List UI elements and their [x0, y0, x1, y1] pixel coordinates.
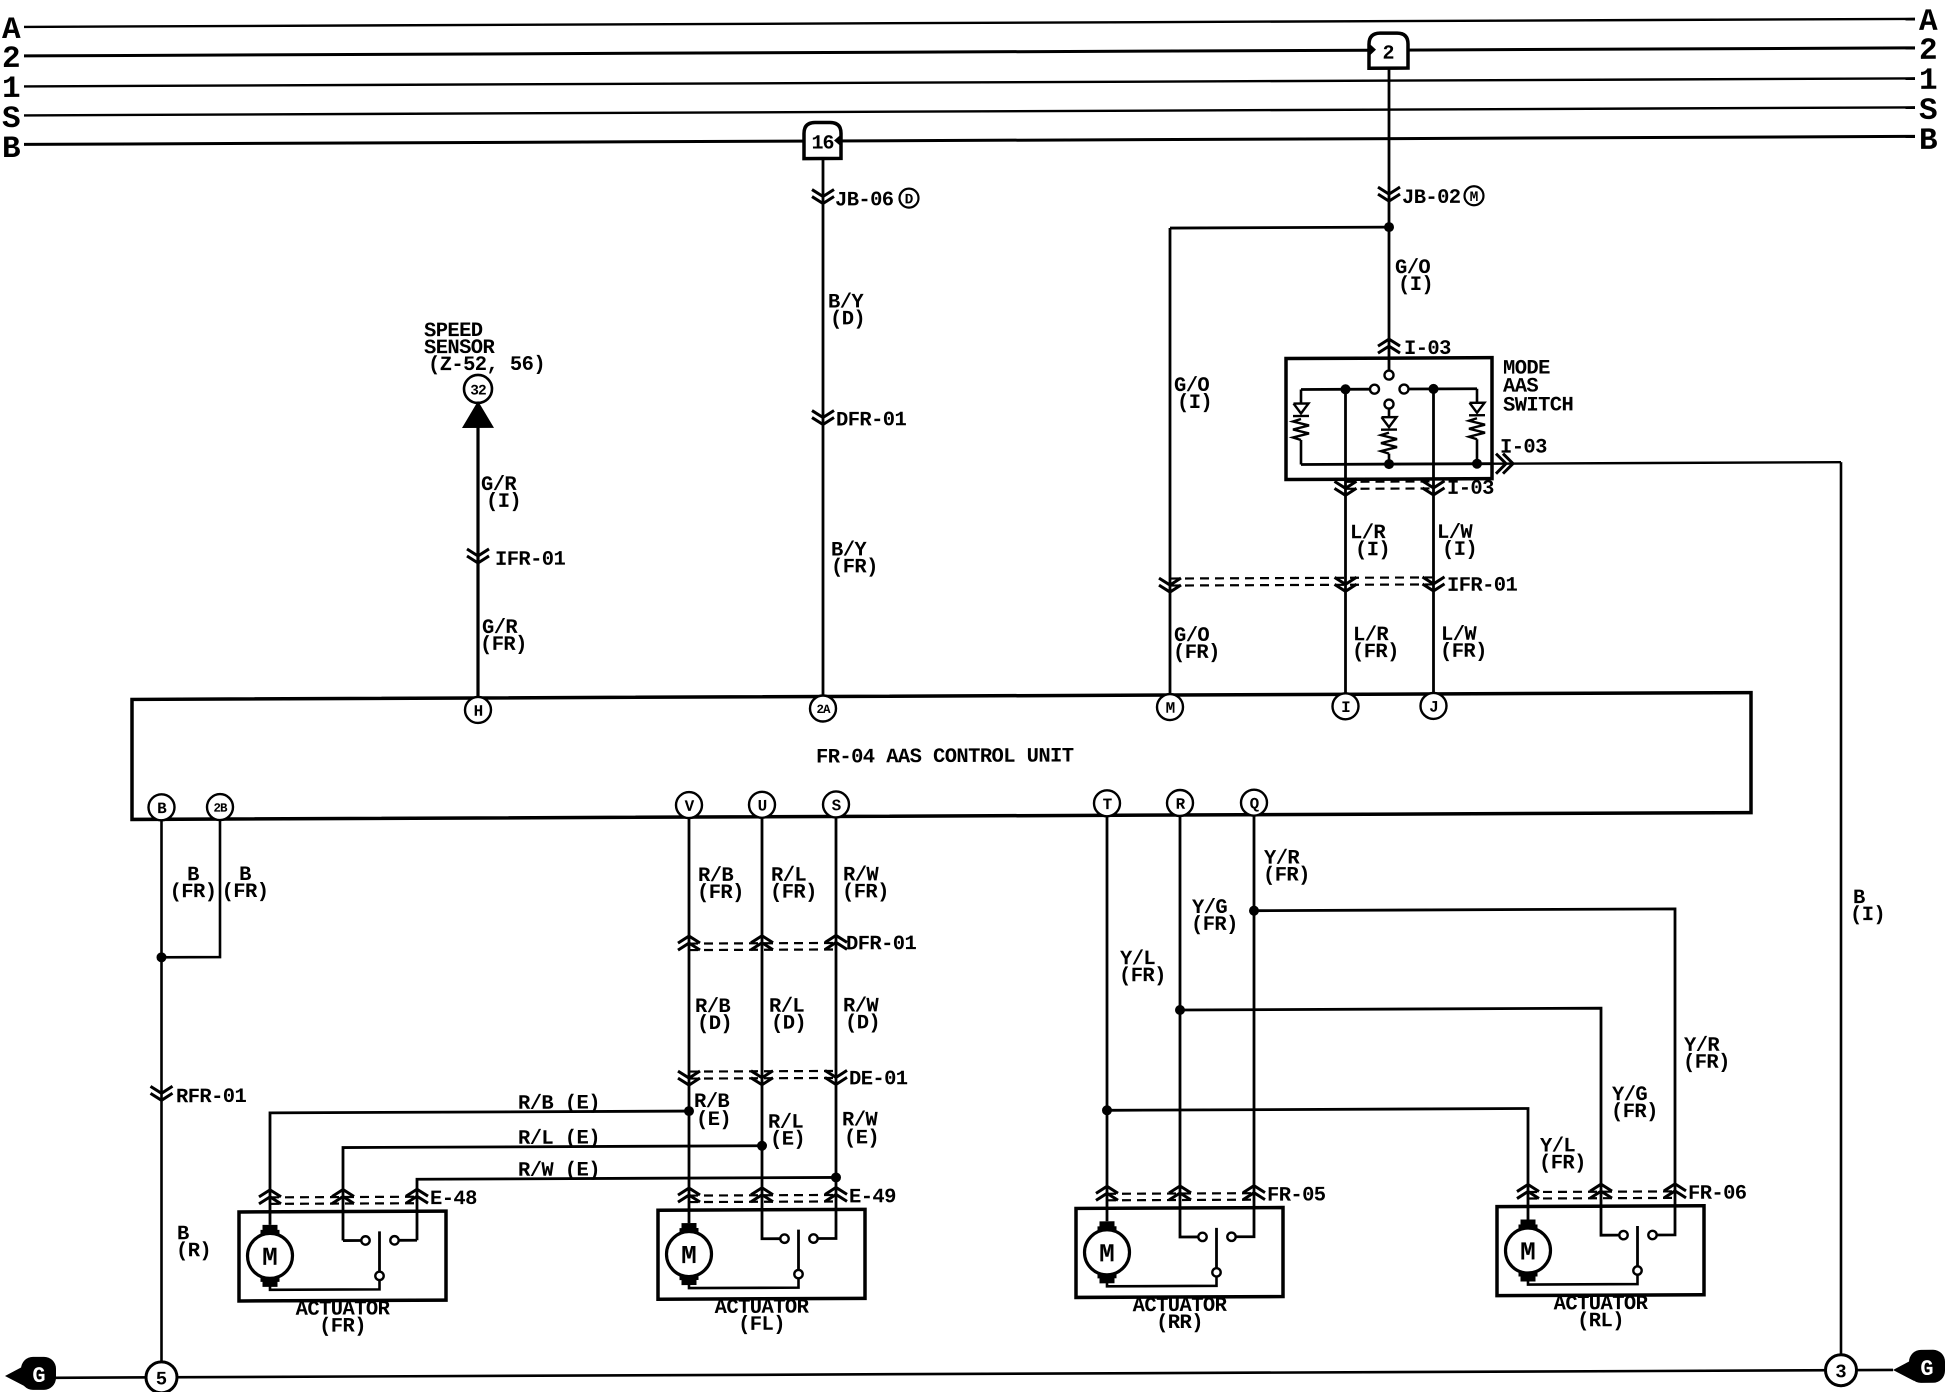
svg-text:I-03: I-03 — [1500, 436, 1547, 459]
svg-text:B: B — [2, 132, 21, 167]
actuator FL box — [658, 1209, 865, 1299]
svg-text:(FR): (FR) — [1611, 1101, 1658, 1124]
svg-text:R: R — [1176, 796, 1186, 814]
wire L/R from switch to terminal I — [1344, 389, 1347, 694]
connector I-03 chevron above mode switch — [1378, 339, 1400, 346]
terminal B — [149, 794, 175, 820]
wire B from terminal B to circle 5 — [160, 819, 163, 1362]
connector DFR-01 chevron on 2A wire — [812, 410, 834, 417]
wire R/B (E) from actuator FR to V wire — [270, 1111, 689, 1225]
wire from connector 16 down to terminal 2A — [822, 159, 825, 697]
motor M of actuator RR — [1085, 1230, 1130, 1275]
svg-text:J: J — [1429, 699, 1438, 717]
wire T from control unit to actuator RR motor — [1106, 815, 1109, 1221]
svg-text:JB-02: JB-02 — [1402, 187, 1461, 210]
junction on G/O wire — [1384, 222, 1394, 232]
switch lever in actuator RR — [1215, 1228, 1218, 1269]
switch pole contact right — [1400, 385, 1409, 394]
actuator RR box — [1076, 1208, 1283, 1298]
svg-text:(E): (E) — [696, 1109, 731, 1132]
switch bottom bar wire — [1301, 462, 1492, 466]
svg-text:(I): (I) — [486, 491, 521, 514]
svg-text:(E): (E) — [844, 1127, 879, 1150]
svg-text:JB-06: JB-06 — [835, 189, 894, 212]
svg-text:B: B — [157, 800, 167, 818]
wire R/W (E) from actuator FR to S wire — [417, 1177, 836, 1240]
svg-text:DFR-01: DFR-01 — [846, 933, 917, 956]
motor M of actuator FR — [248, 1233, 293, 1278]
connector E-49 chevron row to actuator FL — [689, 1194, 836, 1197]
terminal V — [676, 792, 702, 818]
connector I-03 chevron row below switch — [1346, 480, 1434, 483]
svg-text:(I): (I) — [1850, 904, 1885, 927]
svg-text:5: 5 — [156, 1368, 167, 1390]
terminal U — [749, 792, 775, 818]
terminal H — [465, 697, 491, 723]
svg-text:(I): (I) — [1398, 274, 1433, 297]
speed sensor terminal circle 32 — [464, 375, 492, 403]
connector RFR-01 chevron — [151, 1086, 173, 1093]
svg-text:FR-06: FR-06 — [1688, 1183, 1747, 1206]
wire from connector 2 down to mode AAS switch — [1388, 68, 1391, 371]
wire from switch lever to motor in actuator RL — [1528, 1275, 1638, 1285]
connector FR-06 chevron row to actuator RL — [1528, 1190, 1675, 1193]
svg-text:2: 2 — [1382, 43, 1394, 66]
switch lever in actuator RL — [1636, 1226, 1639, 1267]
svg-text:DFR-01: DFR-01 — [836, 409, 907, 432]
svg-text:T: T — [1103, 796, 1113, 814]
svg-text:(FR): (FR) — [831, 556, 878, 579]
wire L/W from switch to terminal J — [1432, 389, 1435, 694]
svg-text:2B: 2B — [213, 802, 228, 816]
junction centre bottom bar — [1384, 459, 1394, 469]
svg-text:FR-05: FR-05 — [1267, 1184, 1326, 1207]
terminal 2B — [207, 794, 233, 820]
svg-text:(FR): (FR) — [1173, 642, 1220, 665]
svg-text:(D): (D) — [845, 1012, 880, 1035]
connector IFR-01 chevron on H wire — [467, 549, 489, 556]
FR-04 AAS control unit box — [132, 693, 1751, 820]
connector FR-05 chevron row to actuator RR — [1107, 1192, 1254, 1195]
svg-text:32: 32 — [470, 383, 486, 399]
wire I-03 output to right edge — [1492, 462, 1841, 463]
junction Y/G on R wire — [1175, 1005, 1185, 1015]
switch contacts in actuator FL — [780, 1234, 788, 1242]
switch centre contact lower — [1385, 400, 1394, 409]
svg-text:(FR): (FR) — [1352, 641, 1399, 664]
svg-text:(FL): (FL) — [738, 1314, 785, 1337]
junction right bottom bar — [1472, 459, 1482, 469]
connector JB-02 chevron — [1378, 187, 1400, 194]
svg-text:DE-01: DE-01 — [849, 1068, 908, 1091]
svg-text:(FR): (FR) — [1191, 914, 1238, 937]
wire S from control unit into actuator FL — [818, 816, 837, 1238]
wire R from control unit into actuator RR — [1180, 815, 1199, 1237]
switch contacts in actuator RR — [1198, 1233, 1206, 1241]
junction B and 2B wires — [157, 952, 167, 962]
svg-text:U: U — [758, 798, 767, 816]
wire bus 2 — [24, 48, 1915, 56]
svg-text:(E): (E) — [770, 1129, 805, 1152]
wire R/L (E) from actuator FR to U wire — [343, 1146, 762, 1241]
wire bus A — [24, 19, 1915, 27]
svg-text:(I): (I) — [1177, 392, 1212, 415]
connector I-03 chevron pointing right — [1496, 454, 1506, 474]
svg-text:V: V — [685, 798, 695, 816]
wire bus S — [24, 107, 1915, 115]
switch contacts in actuator FR — [361, 1236, 369, 1244]
actuator FR box — [239, 1211, 446, 1301]
svg-text:(FR): (FR) — [1440, 641, 1487, 664]
svg-text:(Z-52, 56): (Z-52, 56) — [428, 354, 545, 377]
connector DE-01 chevron row — [689, 1070, 836, 1073]
svg-text:(FR): (FR) — [697, 882, 744, 905]
svg-text:E-49: E-49 — [849, 1186, 896, 1209]
svg-text:(FR): (FR) — [170, 881, 217, 904]
svg-text:H: H — [474, 703, 483, 721]
speed sensor arrow — [462, 401, 494, 428]
actuator RL box — [1497, 1206, 1704, 1296]
diode and resistor centre in mode switch — [1388, 409, 1391, 418]
wire branch to G/O column — [1170, 226, 1389, 230]
wire G/O down to terminal M — [1169, 228, 1172, 695]
svg-text:M: M — [1166, 700, 1175, 718]
svg-text:R/W (E): R/W (E) — [518, 1159, 600, 1182]
svg-text:3: 3 — [1835, 1361, 1846, 1383]
ground symbol G right — [1893, 1359, 1914, 1381]
switch lever in actuator FL — [797, 1230, 800, 1271]
svg-text:G: G — [1920, 1357, 1933, 1382]
wire from switch lever to motor in actuator FL — [689, 1278, 799, 1288]
wire G/R from speed sensor to terminal H — [476, 426, 479, 698]
svg-text:(I): (I) — [1442, 539, 1477, 562]
svg-text:G: G — [32, 1364, 45, 1389]
terminal J — [1421, 693, 1447, 719]
svg-text:(I): (I) — [1355, 539, 1390, 562]
junction L/R on switch bar — [1341, 384, 1351, 394]
svg-text:M: M — [262, 1243, 278, 1273]
ground symbol G left — [5, 1365, 26, 1387]
svg-text:SWITCH: SWITCH — [1503, 394, 1573, 417]
svg-text:(D): (D) — [771, 1013, 806, 1036]
diode and resistor left in mode switch — [1300, 389, 1303, 403]
switch pole contact left — [1370, 385, 1379, 394]
junction L/W on switch bar — [1429, 384, 1439, 394]
terminal T — [1094, 790, 1120, 816]
terminal Q — [1241, 790, 1267, 816]
svg-text:S: S — [832, 797, 842, 815]
junction R/W (E) on S wire — [831, 1172, 841, 1182]
svg-text:(FR): (FR) — [1683, 1052, 1730, 1075]
ground terminal circle 3 — [1826, 1355, 1857, 1386]
terminal R — [1167, 790, 1193, 816]
junction Y/R on Q wire — [1249, 906, 1259, 916]
svg-text:2A: 2A — [816, 703, 831, 717]
svg-text:16: 16 — [811, 132, 833, 155]
wire from switch lever to motor in actuator FR — [270, 1280, 380, 1290]
motor M of actuator FL — [667, 1231, 712, 1276]
svg-text:(D): (D) — [697, 1013, 732, 1036]
svg-text:M: M — [1520, 1237, 1536, 1267]
wire from switch lever to motor in actuator RR — [1107, 1276, 1217, 1286]
svg-text:R/L (E): R/L (E) — [518, 1127, 600, 1150]
svg-text:M: M — [681, 1241, 697, 1271]
connector box 16 on bus B — [804, 122, 841, 158]
wire Y/G to actuator RL — [1180, 1008, 1620, 1237]
ground terminal circle 5 — [146, 1362, 177, 1392]
svg-text:(FR): (FR) — [842, 881, 889, 904]
svg-text:(D): (D) — [830, 308, 865, 331]
svg-text:E-48: E-48 — [430, 1188, 477, 1211]
mode AAS switch box — [1286, 358, 1492, 480]
connector E-48 chevron row to actuator FR — [270, 1196, 417, 1199]
svg-text:FR-04 AAS CONTROL UNIT: FR-04 AAS CONTROL UNIT — [816, 745, 1074, 769]
svg-text:IFR-01: IFR-01 — [495, 549, 566, 572]
terminal 2A — [810, 695, 836, 721]
switch bar right segment — [1409, 387, 1478, 390]
motor M of actuator RL — [1506, 1228, 1551, 1273]
wire Y/R to actuator RL — [1254, 909, 1675, 1237]
terminal I — [1333, 693, 1359, 719]
svg-text:M: M — [1099, 1239, 1115, 1269]
svg-text:M: M — [1470, 190, 1479, 206]
wire ground rail bottom — [55, 1370, 1893, 1378]
svg-text:(FR): (FR) — [1539, 1152, 1586, 1175]
svg-text:Q: Q — [1250, 795, 1260, 813]
wire bus 1 — [24, 78, 1915, 86]
svg-text:D: D — [905, 192, 914, 208]
svg-text:I-03: I-03 — [1447, 478, 1494, 501]
diode and resistor right in mode switch — [1476, 389, 1479, 403]
svg-text:(FR): (FR) — [319, 1315, 366, 1338]
switch common contact — [1385, 371, 1394, 380]
svg-text:B: B — [1919, 124, 1938, 159]
connector DFR-01 chevron row — [689, 942, 836, 945]
wire Y/L to actuator RL motor — [1107, 1109, 1528, 1222]
connector JB-06 chevron — [812, 189, 834, 196]
svg-text:(FR): (FR) — [222, 881, 269, 904]
wire Q from control unit into actuator RR — [1236, 815, 1255, 1237]
svg-text:(FR): (FR) — [480, 634, 527, 657]
terminal M — [1157, 694, 1183, 720]
svg-text:(RR): (RR) — [1156, 1312, 1203, 1335]
wire from terminal 2B — [162, 819, 221, 957]
svg-text:IFR-01: IFR-01 — [1447, 575, 1518, 598]
terminal S — [823, 791, 849, 817]
svg-text:I: I — [1341, 699, 1350, 717]
switch contacts in actuator RL — [1619, 1231, 1627, 1239]
svg-text:RFR-01: RFR-01 — [176, 1086, 247, 1109]
junction R/B (E) on V wire — [684, 1106, 694, 1116]
wire bus B — [24, 136, 1915, 144]
svg-text:(FR): (FR) — [1263, 864, 1310, 887]
wire U from control unit into actuator FL — [762, 817, 781, 1239]
wire B (I) down right edge to circle 3 — [1840, 462, 1843, 1355]
switch bar left segment — [1301, 388, 1370, 391]
svg-text:R/B (E): R/B (E) — [518, 1092, 600, 1115]
connector box 2 on bus 2 — [1369, 33, 1408, 68]
svg-text:(R): (R) — [176, 1240, 211, 1263]
svg-text:(FR): (FR) — [770, 882, 817, 905]
connector IFR-01 chevron row — [1170, 577, 1434, 578]
junction Y/L on T wire — [1102, 1105, 1112, 1115]
switch lever in actuator FR — [378, 1231, 381, 1272]
svg-text:(FR): (FR) — [1119, 965, 1166, 988]
junction R/L (E) on U wire — [757, 1141, 767, 1151]
wire V from control unit to actuator FL motor — [688, 817, 691, 1223]
svg-text:(RL): (RL) — [1577, 1310, 1624, 1333]
